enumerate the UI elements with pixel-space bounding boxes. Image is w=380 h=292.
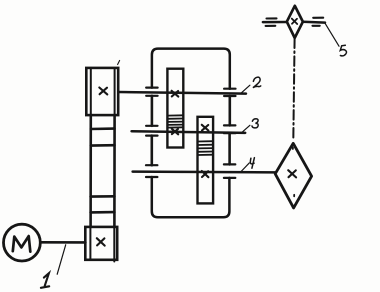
label 2 bbox=[242, 77, 261, 92]
pulley P1 (driver, bottom) bbox=[85, 227, 117, 262]
X mark sprocket S1 bbox=[292, 19, 297, 24]
chain axis dot inside S2 upper bbox=[292, 148, 294, 150]
bearing II left bbox=[146, 126, 157, 136]
housing right wall mid segments bbox=[229, 96, 232, 125]
shaft V left + bearing bbox=[263, 18, 287, 26]
housing bottom bbox=[152, 177, 230, 217]
label 4 bbox=[241, 158, 254, 172]
motor M bbox=[4, 224, 41, 261]
pen tick bbox=[118, 61, 120, 65]
bearing III right bbox=[224, 164, 235, 178]
housing top bbox=[152, 49, 230, 89]
X mark pulley P2 bbox=[99, 88, 107, 95]
X mark gear z3 bbox=[202, 125, 209, 131]
belt hub line d bbox=[91, 211, 115, 214]
belt hub line c bbox=[91, 195, 115, 198]
X mark pulley P1 bbox=[97, 238, 105, 245]
bearing II right bbox=[224, 125, 235, 133]
label 3 bbox=[242, 119, 258, 133]
belt (left run) bbox=[89, 115, 92, 227]
label 5 bbox=[325, 23, 347, 56]
shaft III bbox=[133, 170, 276, 173]
X mark gear z1 bbox=[172, 91, 179, 97]
X mark gear z4 bbox=[202, 171, 209, 177]
gear z1/z2 block bbox=[167, 69, 183, 148]
mesh lines z3-z4 bbox=[198, 141, 214, 155]
sprocket S2 (bottom) bbox=[275, 143, 311, 208]
chain bbox=[293, 39, 294, 141]
bearing I left bbox=[146, 88, 157, 96]
shaft II bbox=[132, 131, 246, 133]
housing left wall mid segments bbox=[151, 96, 154, 126]
X mark gear z2 bbox=[172, 129, 179, 135]
bearing I right bbox=[224, 89, 235, 96]
X mark sprocket S2 bbox=[288, 170, 296, 177]
shaft I bbox=[118, 92, 246, 94]
bearing III left bbox=[146, 165, 157, 177]
pulley P2 (driven, top) bbox=[86, 68, 118, 115]
mesh lines z1-z2 bbox=[167, 115, 183, 127]
belt (right run) bbox=[113, 115, 116, 227]
sprocket S1 (top) bbox=[287, 6, 303, 38]
gear z3/z4 block bbox=[198, 117, 214, 204]
motor shaft bbox=[41, 241, 86, 244]
belt hub line a bbox=[91, 127, 115, 130]
label 1 bbox=[41, 245, 66, 288]
shaft V right + bearing bbox=[303, 18, 325, 26]
chain axis dot inside S2 lower bbox=[293, 195, 295, 197]
belt hub line b bbox=[91, 144, 115, 147]
